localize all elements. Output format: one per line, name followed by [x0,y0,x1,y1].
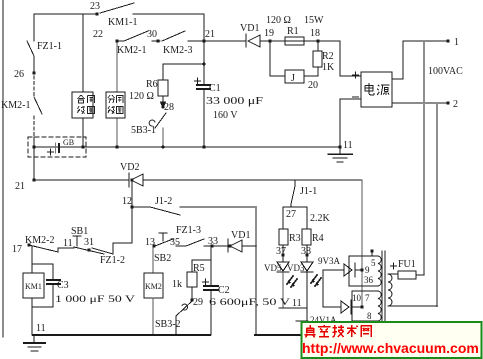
svg-text:FU1: FU1 [398,259,416,270]
svg-text:KM1: KM1 [25,282,42,291]
svg-text:36: 36 [364,275,374,285]
svg-text:17: 17 [12,244,22,255]
svg-text:29: 29 [193,297,203,308]
svg-text:SB2: SB2 [154,253,171,264]
svg-text:KM2: KM2 [145,282,162,291]
svg-text:R2: R2 [322,51,334,62]
svg-text:J1-2: J1-2 [155,196,172,207]
svg-text:37: 37 [276,246,286,257]
svg-text:11: 11 [292,298,302,309]
svg-text:KM2-1: KM2-1 [1,100,30,111]
svg-text:KM2-2: KM2-2 [25,235,54,246]
svg-text:R3: R3 [289,233,301,244]
svg-text:23: 23 [90,1,100,12]
svg-text:SB3-2: SB3-2 [155,319,181,330]
svg-text:SB1: SB1 [71,226,88,237]
svg-text:9V3A: 9V3A [318,256,340,266]
svg-text:KM1-1: KM1-1 [108,17,137,28]
svg-text:35: 35 [170,237,180,248]
svg-text:20: 20 [308,80,318,91]
svg-text:1 000 μF 50 V: 1 000 μF 50 V [55,294,136,304]
svg-text:2: 2 [453,99,458,110]
svg-text:VD2: VD2 [120,162,139,173]
svg-text:1: 1 [454,37,459,48]
svg-text:28: 28 [164,102,174,113]
svg-text:19: 19 [264,28,274,39]
svg-text:11: 11 [63,238,73,249]
svg-text:30: 30 [147,29,157,40]
svg-text:6 600μF, 50 V: 6 600μF, 50 V [209,297,291,307]
svg-text:26: 26 [14,69,24,80]
svg-text:1k: 1k [172,279,182,290]
svg-text:5: 5 [371,258,376,268]
svg-text:KM2-3: KM2-3 [163,45,192,56]
svg-text:18: 18 [310,28,320,39]
svg-text:VD1: VD1 [240,23,259,34]
svg-text:FZ1-3: FZ1-3 [176,225,201,236]
svg-text:http://www.chvacuum.com: http://www.chvacuum.com [302,340,479,356]
svg-text:8: 8 [367,311,372,321]
svg-text:GB: GB [63,138,74,147]
svg-text:C1: C1 [209,83,221,94]
svg-text:33: 33 [208,236,218,247]
svg-text:J1-1: J1-1 [300,186,317,197]
svg-text:R6: R6 [146,79,158,90]
svg-text:11: 11 [343,140,353,151]
svg-text:R5: R5 [193,263,205,274]
svg-text:12: 12 [122,196,132,207]
svg-text:27: 27 [286,209,296,220]
svg-text:VD5: VD5 [264,263,282,273]
svg-text:1K: 1K [322,62,335,73]
svg-text:33 000 μF: 33 000 μF [206,96,264,107]
svg-text:FZ1-1: FZ1-1 [37,41,62,52]
svg-text:100VAC: 100VAC [428,66,463,77]
svg-text:22: 22 [93,29,103,40]
svg-text:11: 11 [36,323,46,334]
svg-text:FZ1-2: FZ1-2 [100,255,125,266]
svg-text:160 V: 160 V [213,110,238,121]
svg-text:VD1: VD1 [231,230,250,241]
svg-text:9: 9 [365,265,370,275]
svg-text:KM2-1: KM2-1 [117,45,146,56]
svg-text:21: 21 [205,29,215,40]
svg-text:C3: C3 [57,280,69,291]
svg-text:R1: R1 [287,26,299,37]
svg-text:VD3: VD3 [287,263,305,273]
svg-text:13: 13 [145,237,155,248]
svg-text:120 Ω: 120 Ω [266,15,291,26]
svg-text:7: 7 [365,293,370,303]
svg-text:38: 38 [301,246,311,257]
svg-text:C2: C2 [218,285,230,296]
svg-text:31: 31 [84,237,94,248]
svg-text:2.2K: 2.2K [310,213,331,224]
svg-text:120 Ω: 120 Ω [129,91,154,102]
svg-text:10: 10 [352,293,362,303]
svg-text:R4: R4 [312,233,324,244]
svg-text:5B3-1: 5B3-1 [131,125,156,136]
svg-text:21: 21 [15,181,25,192]
svg-text:15W: 15W [304,15,324,26]
svg-text:J: J [291,73,295,84]
